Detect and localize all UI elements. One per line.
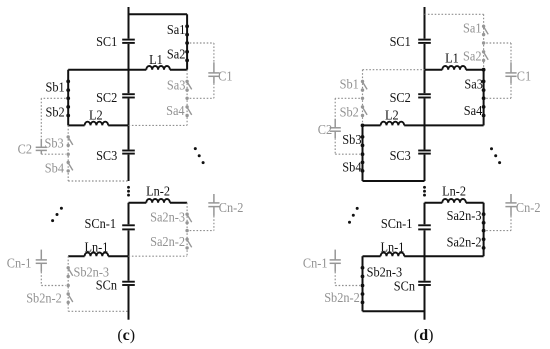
svg-text:Sb3: Sb3 bbox=[45, 136, 64, 151]
bus continuation dots (d) bbox=[423, 186, 426, 197]
svg-text:SCn-1: SCn-1 bbox=[381, 217, 413, 232]
capacitor SCn-1 (d) bbox=[418, 224, 431, 230]
svg-text:C1: C1 bbox=[218, 70, 232, 85]
svg-text:Sb4: Sb4 bbox=[342, 160, 361, 175]
wire: main bus upper segment (d) bbox=[424, 7, 426, 181]
node: Cn-1 tap (d) bbox=[361, 284, 365, 288]
capacitor C1 (c) bbox=[208, 62, 219, 83]
wire: Sb column top segment (c) bbox=[67, 70, 69, 126]
wire: Sb column bottom to bus, open path (c) bbox=[68, 180, 128, 182]
switch Sb3 closed (d) bbox=[361, 135, 365, 147]
svg-text:Sa2: Sa2 bbox=[167, 48, 186, 63]
node: C2 lower tap (d) bbox=[361, 152, 365, 156]
svg-text:SC3: SC3 bbox=[96, 149, 117, 164]
wire: Cn-1 tap lead (d) bbox=[335, 272, 360, 286]
inductor Ln-1 (c) bbox=[85, 253, 109, 257]
wire: C1 lower tap lead (d) bbox=[486, 83, 511, 98]
capacitor C2 (c) bbox=[36, 139, 47, 154]
svg-text:Cn-2: Cn-2 bbox=[516, 201, 541, 216]
capacitor Cn-2 (c) bbox=[208, 194, 219, 216]
svg-text:Ln-1: Ln-1 bbox=[380, 240, 404, 255]
capacitor Cn-1 (d) bbox=[330, 250, 341, 272]
switch Sa2n-2 closed (d) bbox=[482, 237, 486, 249]
svg-text:SC3: SC3 bbox=[390, 149, 411, 164]
switch Sb3 open (c) bbox=[67, 135, 73, 147]
svg-text:Sb2: Sb2 bbox=[340, 106, 359, 121]
capacitor Cn-2 (d) bbox=[505, 194, 516, 216]
capacitor SC3 (c) bbox=[122, 150, 135, 155]
inductor Ln-2 (d) bbox=[442, 199, 466, 203]
inductor L1 (c) bbox=[146, 66, 170, 70]
svg-text:Sa1: Sa1 bbox=[167, 23, 186, 38]
svg-text:Sb2n-3: Sb2n-3 bbox=[74, 265, 110, 280]
wire: Cn-2 tap lead (c) bbox=[190, 216, 214, 231]
node: L1 to Sa column junction (d) bbox=[482, 68, 486, 72]
wire: Sa column bottom to bus, open path (c) bbox=[129, 124, 188, 126]
switch Sa4 open (c) bbox=[185, 105, 191, 117]
switch Sb2 open (d) bbox=[361, 105, 367, 117]
node: C1 lower tap (d) bbox=[482, 96, 486, 100]
switch Sa2n-3 open (c) bbox=[185, 213, 191, 225]
svg-text:Sb1: Sb1 bbox=[46, 81, 65, 96]
node: Cn-2 tap (d) bbox=[482, 229, 486, 233]
svg-text:Sa4: Sa4 bbox=[166, 104, 185, 119]
svg-text:Sa3: Sa3 bbox=[167, 79, 186, 94]
svg-text:Sb2n-2: Sb2n-2 bbox=[324, 291, 360, 306]
wire: main bus upper segment (c) bbox=[128, 7, 130, 181]
wire: Sa column mid segment, open path (c) bbox=[186, 70, 188, 126]
svg-text:Sb2n-2: Sb2n-2 bbox=[26, 292, 62, 307]
switch Sb1 closed (c) bbox=[66, 80, 70, 93]
capacitor SCn (c) bbox=[122, 281, 135, 286]
wire: Sa column top segment (c) bbox=[186, 14, 188, 69]
switch Sb2 closed (c) bbox=[66, 105, 70, 117]
switch Sb2n-2 open (c) bbox=[67, 292, 73, 304]
wire: Sa column lower segment, open path (c) bbox=[186, 203, 188, 257]
svg-text:Cn-2: Cn-2 bbox=[219, 201, 244, 216]
wire: Ln-2 row bus to Sa column (d) bbox=[425, 202, 484, 204]
switch Sa2 closed (c) bbox=[185, 50, 189, 62]
capacitor SCn (d) bbox=[418, 281, 431, 286]
switch Sa1 closed (c) bbox=[185, 24, 189, 36]
ellipsis continuation dots left (d) bbox=[348, 207, 359, 224]
node: Cn-1 tap (c) bbox=[67, 284, 70, 287]
switch Sb4 open (c) bbox=[67, 161, 73, 173]
svg-text:L1: L1 bbox=[445, 51, 459, 66]
switch Sa2 open (d) bbox=[482, 50, 488, 62]
switch Sb2n-3 closed (d) bbox=[361, 266, 365, 278]
node: C1 lower tap (c) bbox=[185, 97, 188, 100]
inductor Ln-2 (c) bbox=[146, 199, 170, 203]
svg-text:Sa2n-2: Sa2n-2 bbox=[150, 235, 185, 250]
svg-text:Sa3: Sa3 bbox=[464, 78, 483, 93]
svg-text:Cn-1: Cn-1 bbox=[303, 256, 328, 271]
capacitor SC1 (c) bbox=[122, 39, 135, 44]
node: C1 upper tap (c) bbox=[185, 41, 189, 45]
node: Cn-2 tap (c) bbox=[185, 229, 188, 232]
wire: Sa column top segment, open path (d) bbox=[483, 14, 485, 69]
wire: bus to Sb column top, open path (d) bbox=[363, 69, 425, 71]
node: C2 lower tap (c) bbox=[67, 153, 70, 156]
wire: Sb column bottom to bus (d) bbox=[363, 180, 425, 182]
node: Sb column to L2 junction (d) bbox=[361, 124, 365, 128]
ellipsis continuation dots right (d) bbox=[490, 147, 501, 164]
capacitor Cn-1 (c) bbox=[36, 250, 47, 272]
node: C2 upper tap (d) bbox=[361, 97, 364, 100]
wire: top branch bus to Sa column (c) bbox=[129, 13, 188, 15]
capacitor SC1 (d) bbox=[418, 39, 431, 44]
wire: C1 upper tap lead (c) bbox=[190, 43, 214, 62]
svg-text:Sb3: Sb3 bbox=[342, 133, 361, 148]
wire: L1 row, Sb column top to Sa column (c) bbox=[68, 69, 187, 71]
svg-text:SCn: SCn bbox=[394, 280, 415, 295]
wire: main bus lower segment (d) bbox=[424, 203, 426, 320]
wire: Sa column mid segment (d) bbox=[483, 70, 485, 126]
wire: Sa column lower bottom to bus, open path (c) bbox=[129, 255, 188, 257]
capacitor SC2 (d) bbox=[418, 93, 431, 98]
node: C2 upper tap (c) bbox=[66, 96, 70, 100]
wire: L2 row Sb column to bus (c) bbox=[68, 124, 128, 126]
svg-text:SC2: SC2 bbox=[96, 91, 117, 106]
svg-text:Sa2n-2: Sa2n-2 bbox=[447, 236, 482, 251]
svg-text:Sa4: Sa4 bbox=[464, 104, 483, 119]
svg-text:SCn-1: SCn-1 bbox=[85, 217, 117, 232]
svg-text:C2: C2 bbox=[18, 142, 32, 157]
svg-text:(c): (c) bbox=[117, 327, 135, 344]
wire: C2 lower tap lead (c) bbox=[41, 153, 65, 155]
wire: Sb column lower bottom to bus (d) bbox=[363, 310, 425, 312]
svg-text:Ln-2: Ln-2 bbox=[442, 184, 466, 199]
svg-text:L2: L2 bbox=[385, 109, 399, 124]
svg-text:C2: C2 bbox=[318, 123, 332, 138]
wire: Sb column lower bottom to bus, open path (c) bbox=[68, 310, 128, 312]
svg-text:Sa2n-3: Sa2n-3 bbox=[447, 209, 482, 224]
wire: Sa column bottom to bus (d) bbox=[425, 124, 484, 126]
wire: L2 row Sb column to bus (d) bbox=[363, 124, 425, 126]
wire: Sb column mid segment (d) bbox=[362, 125, 364, 181]
bus continuation dots (c) bbox=[127, 186, 130, 197]
inductor L2 (d) bbox=[381, 122, 405, 126]
switch Sb1 open (d) bbox=[361, 80, 367, 92]
wire: Sb column top segment, open path (d) bbox=[362, 70, 364, 126]
ellipsis continuation dots right (c) bbox=[194, 147, 205, 164]
wire: Ln-2 row bus to Sa column (c) bbox=[129, 202, 188, 204]
wire: Ln-1 row Sb column to bus (d) bbox=[363, 255, 425, 257]
svg-text:Sb1: Sb1 bbox=[340, 77, 359, 92]
wire: Ln-1 row Sb column to bus (c) bbox=[68, 255, 128, 257]
inductor Ln-1 (d) bbox=[381, 253, 405, 257]
svg-text:Cn-1: Cn-1 bbox=[7, 256, 32, 271]
wire: Cn-1 tap lead (c) bbox=[41, 272, 65, 286]
wire: top branch bus to Sa column, open path (d) bbox=[425, 13, 484, 15]
wire: C2 upper tap lead (c) bbox=[41, 98, 65, 139]
capacitor SC2 (c) bbox=[122, 93, 135, 98]
inductor L1 (d) bbox=[442, 66, 466, 70]
switch Sa2n-2 open (c) bbox=[185, 238, 191, 250]
switch Sa2n-3 closed (d) bbox=[482, 212, 486, 224]
wire: Cn-2 tap lead (d) bbox=[486, 216, 511, 231]
svg-text:SC1: SC1 bbox=[390, 35, 411, 50]
wire: L1 row bus to Sa column (d) bbox=[425, 69, 484, 71]
svg-text:Ln-2: Ln-2 bbox=[146, 184, 170, 199]
inductor L2 (c) bbox=[85, 122, 109, 126]
switch Sb2n-2 closed (d) bbox=[361, 292, 365, 304]
svg-text:Sb4: Sb4 bbox=[45, 161, 64, 176]
capacitor C2 (d) bbox=[330, 119, 341, 139]
svg-text:L2: L2 bbox=[89, 109, 103, 124]
wire: main bus lower segment (c) bbox=[128, 203, 130, 320]
svg-text:SC2: SC2 bbox=[390, 91, 411, 106]
svg-text:Sb2: Sb2 bbox=[46, 106, 65, 121]
svg-text:Sa2: Sa2 bbox=[463, 50, 482, 65]
switch Sb2n-3 open (c) bbox=[67, 266, 73, 278]
wire: C1 lower tap lead (c) bbox=[190, 83, 214, 98]
svg-text:Sa2n-3: Sa2n-3 bbox=[150, 211, 185, 226]
switch Sa4 closed (d) bbox=[482, 105, 486, 117]
wire: Sa column lower segment (d) bbox=[483, 203, 485, 257]
svg-text:Sa1: Sa1 bbox=[463, 21, 482, 36]
svg-text:L1: L1 bbox=[149, 53, 163, 68]
wire: Sb column lower segment (d) bbox=[362, 256, 364, 311]
svg-text:SCn: SCn bbox=[96, 278, 117, 293]
wire: C2 upper tap lead (d) bbox=[335, 98, 360, 118]
wire: Sb column mid segment, open path (c) bbox=[67, 125, 69, 181]
svg-text:Sb2n-3: Sb2n-3 bbox=[367, 265, 403, 280]
ellipsis continuation dots left (c) bbox=[51, 207, 63, 222]
wire: Sa column lower bottom to bus (d) bbox=[425, 255, 484, 257]
svg-text:C1: C1 bbox=[517, 70, 531, 85]
switch Sb4 closed (d) bbox=[361, 161, 365, 173]
svg-text:Ln-1: Ln-1 bbox=[84, 240, 108, 255]
switch Sa1 open (d) bbox=[482, 25, 488, 37]
svg-text:(d): (d) bbox=[414, 327, 434, 344]
switch Sa3 open (c) bbox=[185, 80, 191, 92]
wire: C2 lower tap lead (d) bbox=[335, 138, 360, 154]
capacitor SCn-1 (c) bbox=[122, 224, 135, 230]
wire: C1 upper tap lead (d) bbox=[486, 43, 511, 62]
wire: Sb column lower segment, open path (c) bbox=[67, 256, 69, 311]
svg-text:SC1: SC1 bbox=[96, 35, 117, 50]
capacitor C1 (d) bbox=[505, 62, 516, 83]
switch Sa3 closed (d) bbox=[482, 80, 486, 93]
node: C1 upper tap (d) bbox=[482, 41, 485, 44]
capacitor SC3 (d) bbox=[418, 150, 431, 155]
